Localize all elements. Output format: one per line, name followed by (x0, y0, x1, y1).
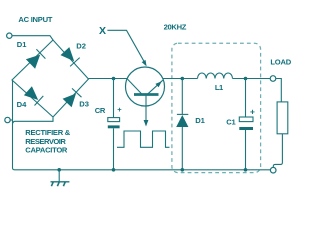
wire bridge left corner down (13, 81, 15, 170)
arrow X to transistor (107, 30, 146, 66)
diode D4 (24, 86, 43, 105)
terminal AC input bottom (5, 117, 10, 122)
capacitor C1 (239, 79, 253, 170)
bridge diamond wires (12, 40, 89, 117)
wire bottom rail (15, 169, 271, 171)
svg-text:D4: D4 (17, 100, 27, 109)
waveform square wave (117, 131, 170, 147)
svg-text:X: X (99, 25, 106, 37)
node junction D1 top (181, 77, 185, 81)
wire AC bottom stub (10, 119, 13, 121)
diode D2 (61, 47, 80, 66)
terminal load bottom (270, 167, 276, 173)
node junction CR top (112, 77, 116, 81)
terminal AC input top (7, 33, 12, 38)
ground (51, 170, 70, 186)
svg-text:D2: D2 (76, 41, 86, 50)
svg-text:AC INPUT: AC INPUT (18, 15, 52, 24)
svg-text:D3: D3 (79, 100, 89, 109)
svg-text:L1: L1 (215, 83, 224, 92)
diode D3 (63, 88, 82, 107)
node junction CR bottom (112, 168, 116, 172)
capacitor CR (108, 79, 120, 170)
svg-text:20KHZ: 20KHZ (164, 23, 187, 32)
wire transistor to inductor (163, 78, 198, 80)
label rectifier reservoir capacitor (25, 128, 70, 154)
svg-text:LOAD: LOAD (270, 58, 291, 67)
wire AC top to bridge (12, 36, 53, 40)
dashed box chopper filter (172, 43, 261, 172)
callout rectifier-reservoir (13, 117, 53, 123)
diode D1 freewheel (176, 79, 188, 170)
svg-text:D1: D1 (17, 40, 27, 49)
svg-text:+: + (117, 105, 122, 114)
wire inductor to load (233, 78, 271, 80)
transistor Q1 (126, 67, 165, 127)
wire load bottom (273, 134, 282, 168)
diode D1 (26, 49, 46, 68)
node junction D1 bottom (181, 168, 185, 172)
svg-text:CR: CR (95, 106, 106, 115)
terminal load top (270, 76, 276, 82)
svg-text:CAPACITOR: CAPACITOR (25, 145, 68, 154)
wire bridge output rail (89, 78, 128, 80)
svg-text:+: + (250, 106, 255, 116)
resistor load (277, 102, 288, 134)
node junction ground (57, 168, 61, 172)
svg-text:D1: D1 (195, 116, 205, 125)
node junction C1 bottom (244, 168, 248, 172)
inductor L1 (198, 73, 233, 79)
node junction C1 top (244, 77, 248, 81)
svg-text:C1: C1 (226, 118, 236, 127)
wire load top (276, 79, 282, 102)
